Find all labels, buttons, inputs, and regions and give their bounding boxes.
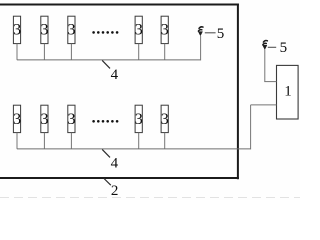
scan artifact dashed line bottom [0, 197, 300, 199]
label 1 [284, 84, 292, 100]
svg-text:3: 3 [68, 22, 76, 39]
wire stub row2 #3 [70, 133, 72, 149]
svg-text:4: 4 [111, 67, 119, 83]
antenna symbol 5 (receive) [263, 40, 268, 49]
svg-text:3: 3 [68, 111, 76, 128]
receive antenna feed wire horizontal to box 1 [264, 81, 276, 83]
wire stub row2 #4 [138, 133, 140, 149]
svg-text:2: 2 [111, 183, 119, 199]
label 4 row1 [111, 67, 119, 83]
svg-text:3: 3 [135, 22, 143, 39]
wire stub row1 #1 [16, 44, 18, 60]
feed bus 4 row2 [17, 148, 251, 150]
label 5 right [280, 40, 288, 56]
label 5 top [217, 26, 225, 42]
svg-text:1: 1 [284, 84, 292, 100]
svg-text:4: 4 [111, 155, 119, 171]
wire stub row1 #2 [43, 44, 45, 60]
svg-text:3: 3 [13, 111, 21, 128]
ellipsis dots row2 [92, 120, 118, 123]
receive antenna feed wire vertical [264, 49, 266, 81]
antenna element 3 (row2 #2) [41, 105, 49, 132]
label 4 row2 [111, 155, 119, 171]
antenna element 3 (row2 #4) [135, 105, 143, 132]
antenna element 3 (row2 #3) [68, 105, 76, 132]
leader dash for label 5 top [205, 32, 216, 34]
antenna element 3 (row1 #1) [13, 16, 21, 43]
svg-text:5: 5 [280, 40, 288, 56]
wire stub row2 #5 [164, 133, 166, 149]
wire stub row2 #2 [43, 133, 45, 149]
leader tick for label 4 row1 [102, 60, 110, 68]
antenna symbol 5 (transmit) [198, 27, 203, 36]
svg-text:3: 3 [41, 22, 49, 39]
ellipsis dots row1 [92, 31, 118, 34]
svg-text:3: 3 [41, 111, 49, 128]
antenna element 3 (row1 #5) [161, 16, 169, 43]
antenna element 3 (row2 #1) [13, 105, 21, 132]
label 2 [111, 183, 119, 199]
antenna element 3 (row2 #5) [161, 105, 169, 132]
svg-text:3: 3 [161, 111, 169, 128]
wire stub row1 #3 [70, 44, 72, 60]
wire from box 1 to row2 bus vertical [250, 105, 252, 149]
wire stub row1 #4 [138, 44, 140, 60]
feed bus 4 row1 [17, 59, 201, 61]
svg-text:3: 3 [135, 111, 143, 128]
svg-text:3: 3 [13, 22, 21, 39]
enclosure box 2 bottom edge [0, 177, 239, 179]
wire from box 1 to row2 bus horizontal [251, 104, 277, 106]
leader tick for label 4 row2 [102, 149, 110, 157]
svg-text:3: 3 [161, 22, 169, 39]
enclosure box 2 right edge [237, 4, 239, 180]
leader tick for label 2 [104, 179, 111, 186]
wire stub row1 #5 [164, 44, 166, 60]
antenna feed wire row1 [200, 36, 202, 60]
antenna element 3 (row1 #3) [68, 16, 76, 43]
leader dash for label 5 right [268, 46, 276, 48]
control unit box 1 [277, 65, 299, 119]
antenna element 3 (row1 #2) [41, 16, 49, 43]
antenna element 3 (row1 #4) [135, 16, 143, 43]
enclosure box 2 top edge [0, 4, 239, 6]
svg-text:5: 5 [217, 26, 225, 42]
wire stub row2 #1 [16, 133, 18, 149]
